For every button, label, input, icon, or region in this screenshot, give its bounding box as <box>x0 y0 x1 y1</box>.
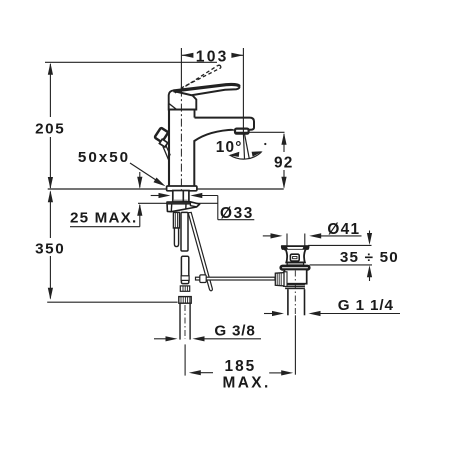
dimension 350 <box>48 190 53 299</box>
dimension 185 MAX <box>185 344 293 375</box>
body left wall <box>168 104 170 186</box>
dimension 35-50 <box>308 231 372 282</box>
dimension 205 <box>48 63 53 189</box>
collar band <box>287 262 304 266</box>
svg-text:G 3/8: G 3/8 <box>214 322 255 339</box>
body right wall lower <box>194 130 234 186</box>
cup rim <box>281 245 310 315</box>
svg-text:25 MAX.: 25 MAX. <box>70 209 137 226</box>
svg-text:185: 185 <box>225 358 257 375</box>
base plate <box>167 186 197 191</box>
dimension G 3/8 <box>154 336 261 341</box>
dimension O33 arrows <box>151 193 255 220</box>
svg-text:50x50: 50x50 <box>78 149 130 166</box>
tailpipe <box>287 289 289 315</box>
extension line G3/8 level <box>47 301 177 303</box>
svg-text:Ø41: Ø41 <box>327 221 360 238</box>
horizontal linkage rod <box>196 275 276 283</box>
counter top line <box>48 188 284 190</box>
pop-up rod upper <box>181 212 188 251</box>
svg-text:MAX.: MAX. <box>223 374 271 391</box>
svg-text:92: 92 <box>274 154 294 171</box>
supply hose upper section <box>179 256 191 303</box>
dimension 25 MAX <box>70 172 142 227</box>
lever raised position (dashed) <box>175 65 221 93</box>
waste body <box>285 270 307 284</box>
mounting bracket (horseshoe) <box>167 202 200 212</box>
water stream lines 10 deg <box>230 133 262 159</box>
spout right wall top <box>194 110 196 118</box>
svg-text:103: 103 <box>196 48 229 65</box>
faucet body <box>167 84 254 190</box>
svg-text:205: 205 <box>35 120 65 137</box>
linkage diagonal rod <box>188 212 212 290</box>
svg-text:G 1 1/4: G 1 1/4 <box>338 297 394 314</box>
extension line through spout <box>242 117 244 133</box>
dimension O41 <box>263 233 362 246</box>
svg-text:350: 350 <box>35 240 65 257</box>
hose centerline <box>184 305 186 339</box>
cup body <box>286 250 305 263</box>
drain centerline extension <box>294 315 296 374</box>
overflow square <box>290 254 299 261</box>
dimension G 1 1/4 <box>264 311 400 316</box>
dimension 92 <box>235 132 287 188</box>
extension line top (lever raised tip level) <box>45 61 217 63</box>
leader 50x50 <box>130 163 166 186</box>
flange <box>281 266 310 270</box>
hose tube <box>180 303 190 339</box>
knurled nut G3/8 <box>179 297 191 304</box>
drain centerline <box>294 271 296 316</box>
faucet centerline <box>180 89 182 190</box>
hub (cartridge housing) <box>169 90 197 109</box>
left stud <box>173 212 179 246</box>
svg-text:35 ÷ 50: 35 ÷ 50 <box>340 249 399 266</box>
dimension 103 <box>181 48 243 117</box>
svg-text:10°: 10° <box>216 139 243 156</box>
counter bottom line <box>138 202 218 204</box>
spout <box>195 118 255 130</box>
side port with knurled nut <box>275 272 287 287</box>
pop-up knob (back of faucet) <box>154 128 170 160</box>
shank below counter <box>173 191 189 204</box>
lock nut dark <box>285 284 305 290</box>
lever (handle) <box>174 84 240 95</box>
aerator <box>235 129 249 134</box>
svg-text:Ø33: Ø33 <box>220 205 254 222</box>
angle arc <box>230 152 262 159</box>
